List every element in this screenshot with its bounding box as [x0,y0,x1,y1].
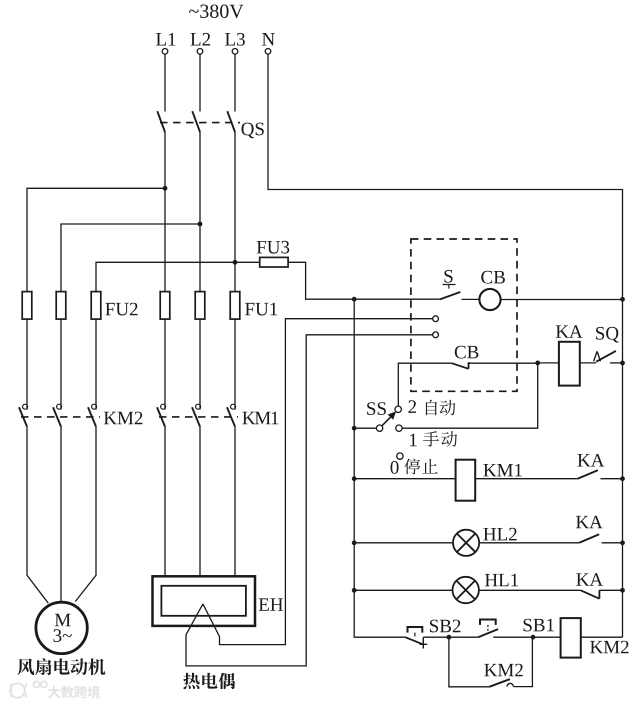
wire KM1 coil to KA contact [475,478,577,480]
wire branch L2 to column B [61,224,200,292]
label L3 [225,33,245,46]
label FU2 [105,303,137,316]
label ~380V supply [189,4,243,18]
junction right bus top [620,297,625,302]
wire L1 to QS [164,54,166,111]
left control bus [353,299,355,637]
selector position 2 terminal [395,406,401,412]
label KM2 coil [590,641,629,654]
label HL1 [485,574,518,587]
wire fuse to contactor [26,319,28,410]
contactor auxiliary contact KM2 (NO) [489,679,510,687]
wire FU3 feed [235,262,440,299]
wire L1 to heater EH [164,427,166,577]
label SB2 [430,620,460,633]
label M [55,614,71,626]
label FU3 [257,241,290,254]
disconnector QS pole 2 blade [192,111,200,132]
wire bus to KM1 coil [354,478,455,480]
controller output CB (bell) circle [479,289,500,310]
disconnector QS pole 3 blade [227,111,235,132]
fuse FU2 c [91,292,101,320]
wire manual position 1 to KA node [402,363,538,428]
wire SQ to right bus [610,362,623,364]
junction HL1 row left [352,588,357,593]
KM2 linkage dashed line [21,416,100,418]
wire L3 QS to FU1 [234,132,236,292]
wire bus to HL1 lamp [354,589,452,591]
label fan motor (Chinese) [17,658,34,675]
disconnector QS pole 1 blade [157,111,165,132]
wire HL2 to KA contact [479,542,579,544]
wire fuse to contactor [199,319,201,410]
wire bus to HL2 lamp [354,542,453,544]
wire branch L3 to column C and FU3 feed [96,262,235,291]
wire bus to SS common [354,427,376,429]
wire SB2 to junction [423,636,449,638]
label 3~ [54,629,72,642]
label KM2 main [104,412,143,425]
switch S blade [440,292,461,299]
wire fuse to contactor [60,319,62,410]
label N [262,33,275,45]
selector position 0 terminal [397,453,403,459]
junction right bus HL1 row [620,588,625,593]
label KA coil [556,325,583,338]
switch S actuator [443,285,456,289]
fuse FU1 a [160,292,170,320]
KM1 linkage dashed line [159,416,238,418]
wire KA coil to SQ [580,362,596,364]
contactor KM1 main contact 2 [196,404,201,409]
wire fuse to contactor [95,319,97,410]
wire S to CB [462,298,480,300]
fuse FU1 c [230,292,240,320]
wire latch branch down [449,637,489,687]
heater EH inner box [161,586,246,616]
wire L3 to QS [234,54,236,111]
thermocouple junction and leads [186,335,433,666]
temperature controller dashed box [411,239,517,391]
junction right bus KM1 row [620,476,625,481]
label CB lower [455,346,479,359]
junction KA coil node [535,361,540,366]
wire L2 to QS [199,54,201,111]
motor M 3-phase circle [36,602,87,653]
junction L2 branch [198,222,203,227]
label KA KM1 row [578,454,605,467]
label SS [367,402,386,415]
wire SB1 to junction [493,636,533,638]
terminal L1 [162,49,168,55]
label SQ [596,327,619,343]
terminal L2 [197,49,203,55]
wire fuse to contactor [164,319,166,410]
terminal controller input upper [433,316,439,322]
wire latch to SB1 node [513,637,532,686]
junction HL2 row left [352,540,357,545]
fuse FU3 [260,257,288,267]
watermark logo [10,681,47,697]
contactor KM2 main contact 1 [23,404,28,409]
wire L2 QS to FU1 [199,132,201,292]
label KM1 main [242,412,278,425]
wire HL1 to KA contact [479,589,581,591]
label SB1 [524,619,554,632]
contactor coil KM2 [561,618,581,658]
junction SB1 node [531,635,536,640]
terminal L3 [232,49,238,55]
label CB top [481,271,505,284]
label KM2 latch [484,664,523,677]
label HL2 [483,528,516,541]
fuse FU1 b [195,292,205,320]
label KA HL2 row [576,516,603,529]
label EH [259,598,283,610]
pushbutton SB1 (NO) [480,619,496,625]
wire column B to motor [60,427,62,603]
relay contact KA (NO) KM1 row [578,470,598,479]
relay contact KA (NO) HL2 row [579,534,599,543]
fuse FU2 b [56,292,66,320]
label FU1 [245,303,277,316]
wire left bus corner to SB2 [354,636,405,638]
junction L1 branch [163,186,168,191]
wire node to KA coil [538,362,559,364]
wire L1 QS to FU1 [164,132,166,292]
terminal controller input lower [433,332,439,338]
wire L3 to heater EH [234,427,236,577]
contactor KM1 main contact 1 [161,404,166,409]
junction SB2 node [447,635,452,640]
wire column C to motor [75,427,96,602]
label S [444,270,452,283]
label L1 [156,33,175,46]
contactor KM1 main contact 3 [231,404,236,409]
selector position 1 terminal [396,425,402,431]
label 0 stop [391,461,399,474]
junction SS row [352,426,357,431]
wire column A to motor [27,427,48,604]
pushbutton SB2 (NC) [408,626,423,633]
wire branch L1 to left column A [27,188,165,291]
contactor KM2 main contact 3 [92,404,97,409]
relay contact KA (NC closed) HL1 row [581,590,600,598]
wire junction to KM2 coil [533,636,561,638]
wire KM2 coil to right bus [581,636,623,638]
indicator lamp HL2 [453,530,479,556]
selector SS blade with arrow [382,417,391,426]
wire fuse to contactor [234,319,236,410]
wire auto line corner to position 2 [398,363,451,406]
wire CB to right bus [501,299,623,301]
junction right bus HL2 row [620,540,625,545]
junction KM1 row left [352,476,357,481]
QS linkage dashed line [160,122,240,124]
label 1 manual [410,434,417,447]
terminal N [265,49,271,55]
indicator lamp HL1 [453,577,479,603]
label KM1 coil [483,464,521,477]
selector SS common terminal [376,425,382,431]
contact CB (closed) [452,363,470,369]
junction L3 branch [233,260,238,265]
label QS [241,123,263,139]
contactor KM2 main contact 2 [57,404,62,409]
junction right bus SQ row [620,361,625,366]
wire L2 to heater EH [199,427,201,577]
label thermocouple (Chinese) [183,673,200,689]
wire junction to SB1 [449,636,478,638]
label L2 [191,33,211,46]
heater EH outer box [153,576,256,626]
wire N to right bus [268,54,623,637]
fuse FU2 a [22,292,32,320]
wire KA contact to right bus [601,478,623,480]
limit switch SQ contact [596,351,616,362]
junction left bus top [352,297,357,302]
contactor coil KM1 [456,460,476,501]
label KA HL1 row [576,573,603,586]
relay coil KA [559,342,580,386]
label 2 auto [408,400,416,413]
